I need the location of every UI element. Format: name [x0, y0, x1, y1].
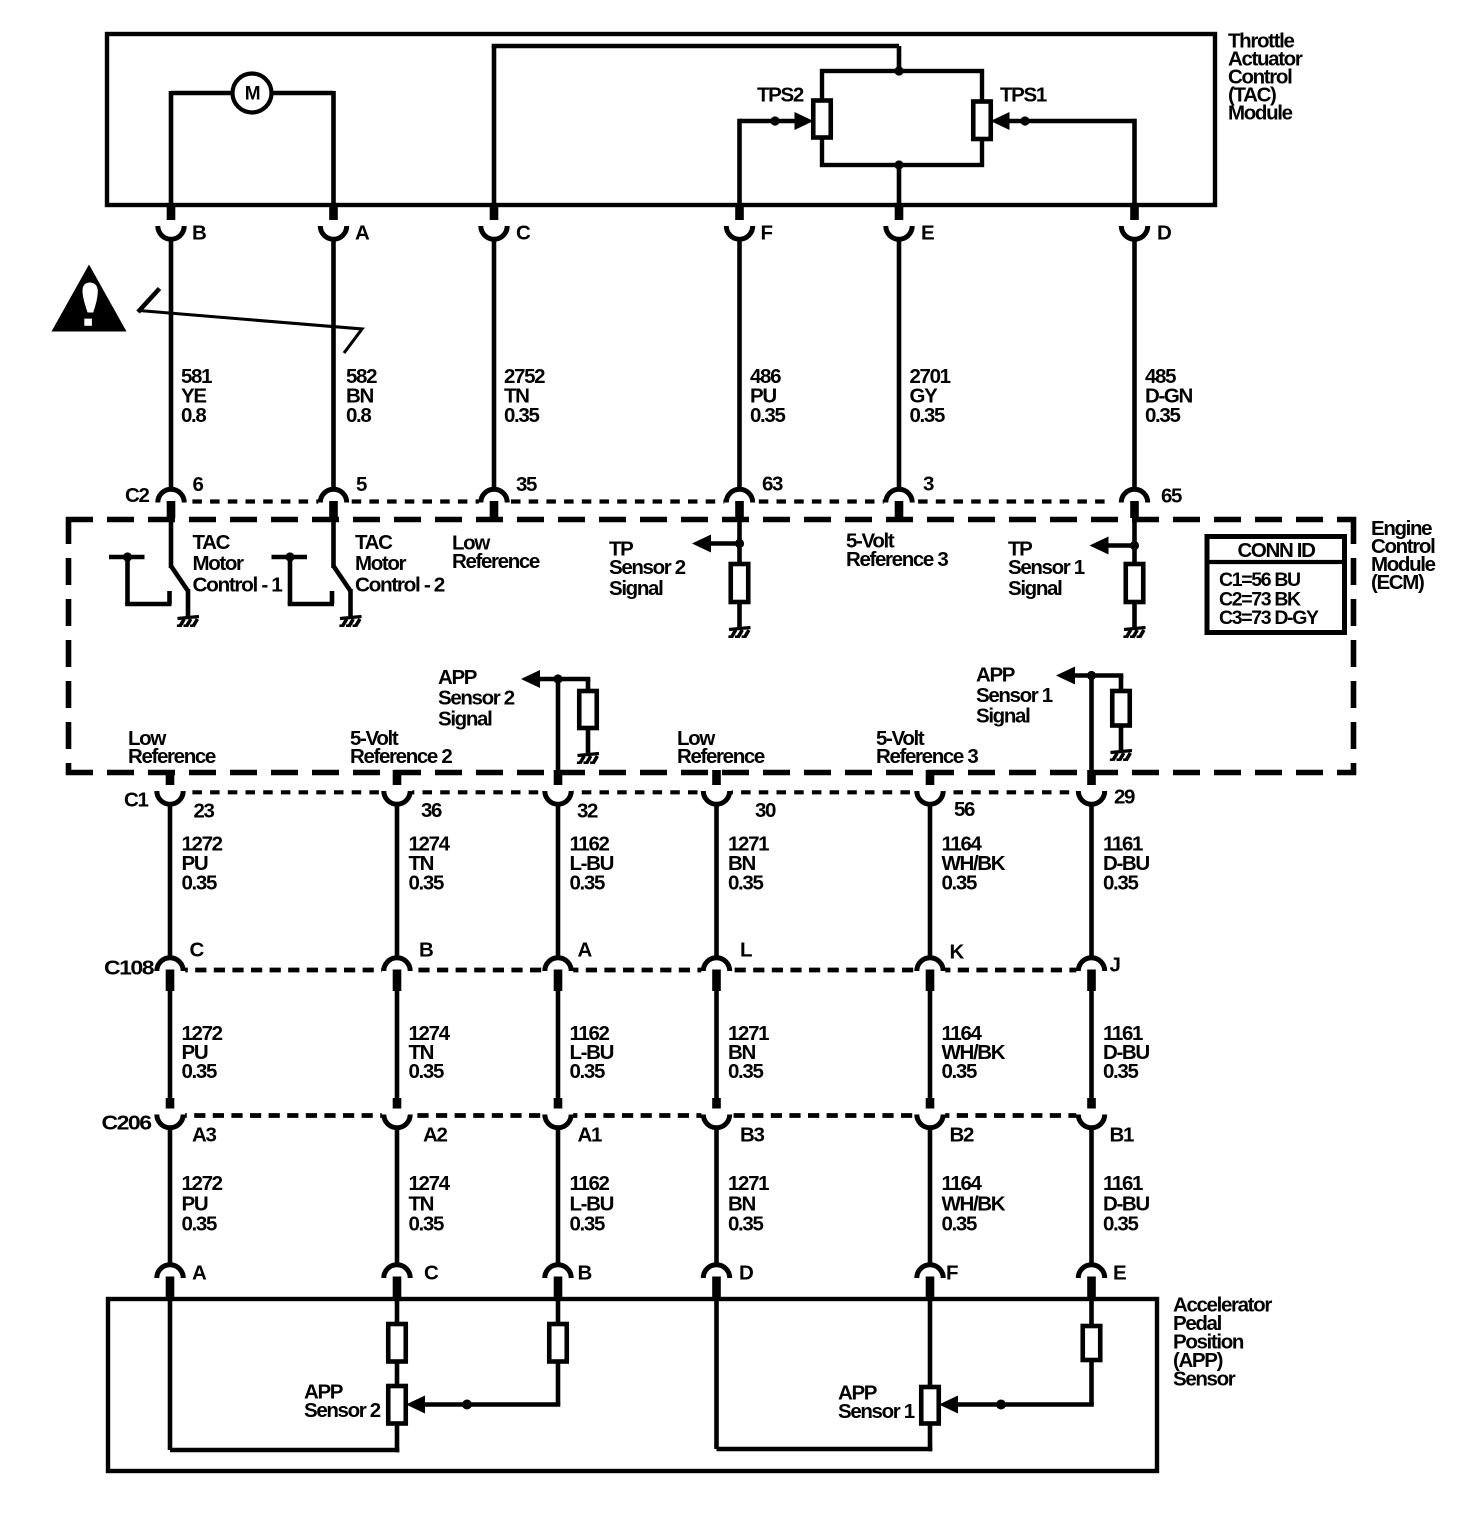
connector pin 36 (C1) [382, 770, 412, 958]
resistor APP sensor 1 wiper series [1083, 1326, 1101, 1360]
wire label 1274 TN (C108-C206) [409, 1022, 451, 1083]
wire TPS1 wiper [1008, 119, 1135, 207]
svg-text:0.8: 0.8 [346, 404, 371, 427]
svg-text:3: 3 [923, 472, 934, 495]
svg-text:Signal: Signal [1008, 577, 1062, 600]
wire TPS bottom to pin E [897, 165, 902, 207]
pin label 23 [194, 799, 215, 822]
pin label 3 [923, 472, 934, 495]
wire label 581 YE 0.8 [181, 365, 212, 427]
svg-text:D: D [1157, 221, 1171, 244]
wire label 1271 BN (C108-C206) [728, 1022, 769, 1083]
wire pin F to pot 1 [928, 1301, 933, 1387]
pin label A1 [578, 1123, 602, 1146]
connector pin B (APP sensor) [543, 1265, 573, 1299]
wire label 1162 L-BU (C206-APP) [570, 1172, 614, 1236]
wire resistor to pot 2 [395, 1362, 400, 1387]
svg-text:Sensor 2: Sensor 2 [609, 556, 686, 579]
node TPS2 wiper dot [770, 116, 779, 125]
wire APP sensor 2 signal [556, 679, 561, 772]
svg-text:TAC: TAC [355, 531, 393, 554]
svg-text:C108: C108 [104, 956, 154, 979]
svg-text:0.35: 0.35 [409, 1212, 444, 1235]
arrow TP sensor 2 signal [692, 535, 744, 553]
svg-text:0.35: 0.35 [1103, 871, 1138, 894]
pin label 35 [516, 473, 537, 496]
wire label 1271 BN (C1-C108) [728, 832, 769, 894]
arrow TP sensor 1 signal [1090, 537, 1140, 555]
node TPS bottom junction [894, 160, 903, 169]
svg-text:K: K [950, 940, 965, 963]
svg-text:B3: B3 [740, 1123, 764, 1146]
wire TP sensor 2 signal [737, 517, 742, 564]
driver TAC Motor Control - 1 (with ground) [109, 517, 199, 626]
label 5-Volt Reference 2 (pin 36) [350, 727, 452, 768]
pin label A [355, 221, 370, 244]
arrowhead APP sensor 2 wiper [406, 1396, 425, 1414]
pin label 63 [762, 472, 783, 495]
svg-text:Sensor 1: Sensor 1 [838, 1400, 915, 1423]
svg-text:B2: B2 [950, 1123, 974, 1146]
TAC module box outline [107, 34, 1215, 205]
label TP Sensor 1 Signal [1008, 537, 1085, 600]
resistor APP sensor 2 wiper series [549, 1324, 567, 1362]
svg-text:56: 56 [954, 798, 975, 821]
wire resistor to ground [1119, 726, 1124, 752]
pin label B [419, 938, 433, 961]
connector pin 56 (C1) [915, 770, 945, 958]
label TAC Motor Control - 1 [193, 531, 283, 597]
svg-text:0.35: 0.35 [182, 1212, 217, 1235]
svg-text:0.35: 0.35 [750, 404, 785, 427]
svg-text:(ECM): (ECM) [1371, 571, 1424, 594]
wire label 1272 PU (C1-C108) [182, 832, 223, 894]
svg-text:0.35: 0.35 [1103, 1212, 1138, 1235]
wire motor right to pin A [270, 91, 334, 207]
pin label A2 [423, 1123, 447, 1146]
label APP Sensor 1 Signal [976, 663, 1053, 727]
wire TP sensor 1 signal [1132, 517, 1137, 564]
svg-text:B: B [192, 221, 206, 244]
warning symbol (caution triangle) [52, 265, 127, 332]
connector pin L (C108) [701, 958, 731, 1100]
svg-text:C: C [190, 938, 205, 961]
wire label 1161 D-BU (C206-APP) [1103, 1172, 1149, 1236]
resistor TP sensor 2 pull-up [731, 564, 749, 602]
svg-text:B: B [419, 938, 433, 961]
connector pin F (APP sensor) [915, 1265, 945, 1299]
wire pin C into box [395, 1301, 400, 1324]
resistor TP sensor 1 pull-up [1126, 564, 1144, 602]
connector C108 dashed line [158, 968, 1079, 973]
svg-text:C: C [424, 1261, 439, 1284]
connector pin A (C108) [543, 958, 573, 1100]
svg-text:6: 6 [193, 473, 204, 496]
connector pin 65 (C2) [1119, 489, 1149, 518]
wire pin D to pot 1 low side [717, 1301, 933, 1449]
svg-text:29: 29 [1114, 785, 1135, 808]
wire label 1274 TN (C1-C108) [409, 832, 451, 894]
node TPS top junction [894, 66, 903, 75]
wire motor left to pin B [171, 91, 234, 207]
svg-text:B1: B1 [1110, 1123, 1134, 1146]
label Engine Control Module (ECM) [1371, 517, 1436, 594]
connector pin B3 (C206) [701, 1098, 731, 1265]
pin label 29 [1114, 785, 1135, 808]
svg-text:65: 65 [1161, 484, 1182, 507]
label 5-Volt Reference 3 (pin 56) [876, 727, 978, 768]
svg-text:0.8: 0.8 [181, 404, 206, 427]
resistor APP sensor 2 pull-up [579, 679, 597, 728]
wire label 1161 D-BU (C1-C108) [1103, 832, 1149, 894]
svg-text:A3: A3 [192, 1123, 216, 1146]
svg-text:C1: C1 [124, 788, 148, 811]
node APP sensor 2 wiper dot [462, 1400, 472, 1410]
svg-text:0.35: 0.35 [1145, 404, 1180, 427]
svg-text:32: 32 [577, 799, 598, 822]
wire label 2752 TN 0.35 [504, 365, 545, 427]
arrowhead TPS1 wiper [991, 112, 1010, 130]
svg-text:36: 36 [421, 799, 442, 822]
svg-text:0.35: 0.35 [570, 871, 605, 894]
svg-text:E: E [921, 221, 934, 244]
connector pin A2 (C206) [382, 1098, 412, 1265]
pin label 65 [1161, 484, 1182, 507]
pin label B3 [740, 1123, 764, 1146]
connector pin 32 (C1) [543, 770, 573, 958]
wire label 1162 L-BU (C1-C108) [570, 832, 614, 894]
pin label 36 [421, 799, 442, 822]
ECM module dashed border [66, 517, 1356, 775]
wire label 1162 L-BU (C108-C206) [570, 1022, 614, 1083]
wire APP sensor 1 signal [1089, 676, 1094, 773]
ground TP sensor 1 [1123, 628, 1145, 638]
svg-text:0.35: 0.35 [910, 404, 945, 427]
svg-text:C206: C206 [102, 1111, 152, 1134]
svg-text:F: F [761, 221, 773, 244]
svg-text:B: B [578, 1261, 592, 1284]
arrow APP sensor 1 signal [1056, 667, 1123, 685]
connector pin D (TAC module) [1119, 205, 1149, 490]
svg-text:35: 35 [516, 473, 537, 496]
svg-text:Module: Module [1228, 101, 1293, 124]
wire label 1271 BN (C206-APP) [728, 1172, 769, 1236]
svg-text:0.35: 0.35 [728, 1212, 763, 1235]
pin label C [190, 938, 205, 961]
svg-text:Motor: Motor [355, 552, 407, 575]
svg-text:0.35: 0.35 [570, 1060, 605, 1083]
wire resistor to ground [737, 602, 742, 628]
resistor APP sensor 2 series [388, 1324, 406, 1362]
svg-text:C2: C2 [125, 484, 149, 507]
connector pin B1 (C206) [1076, 1098, 1106, 1265]
label TAC Motor Control - 2 [355, 531, 445, 597]
APP sensor box outline [108, 1299, 1157, 1471]
svg-text:5: 5 [356, 473, 367, 496]
arrow APP sensor 2 signal [521, 670, 590, 688]
pin label D [739, 1261, 753, 1284]
resistor APP sensor 1 pull-up [1112, 676, 1130, 726]
label Throttle Actuator Control (TAC) Module [1228, 29, 1303, 124]
svg-text:Sensor 1: Sensor 1 [1008, 556, 1085, 579]
svg-text:TAC: TAC [193, 531, 231, 554]
wire pot 1 to low rail [928, 1424, 933, 1452]
wire label 1274 TN (C206-APP) [409, 1172, 451, 1236]
connector pin C (TAC module) [479, 205, 509, 490]
label TPS2 [757, 83, 804, 106]
connector pin 35 (C2) [479, 489, 509, 518]
svg-text:E: E [1113, 1261, 1126, 1284]
connector pin E (TAC module) [884, 205, 914, 490]
svg-text:J: J [1110, 953, 1120, 976]
svg-text:TPS2: TPS2 [757, 83, 804, 106]
svg-text:0.35: 0.35 [409, 871, 444, 894]
svg-text:Signal: Signal [438, 707, 492, 730]
wire label 1164 WH/BK (C206-APP) [942, 1172, 1006, 1236]
svg-text:Reference: Reference [452, 550, 540, 573]
svg-text:Signal: Signal [609, 577, 663, 600]
connector pin C (APP sensor) [382, 1265, 412, 1299]
pin label B [192, 221, 206, 244]
pin label C [424, 1261, 439, 1284]
wire label 2701 GY 0.35 [910, 365, 951, 427]
connector C206 dashed line [157, 1113, 1079, 1118]
TPS bridge rectangle [822, 71, 982, 165]
label APP Sensor 2 Signal [438, 666, 515, 731]
pin label B [578, 1261, 592, 1284]
connector pin B (TAC module) [156, 205, 186, 490]
svg-text:0.35: 0.35 [942, 1212, 977, 1235]
pin label 5 [356, 473, 367, 496]
warning leader line [138, 289, 362, 354]
svg-text:0.35: 0.35 [570, 1212, 605, 1235]
wire pin E into box [1089, 1301, 1094, 1326]
wire resistor to wiper [957, 1360, 1094, 1405]
pin label 32 [577, 799, 598, 822]
svg-text:Reference 3: Reference 3 [846, 548, 948, 571]
svg-text:0.35: 0.35 [728, 1060, 763, 1083]
resistor TPS2 [813, 101, 831, 138]
connector pin K (C108) [915, 958, 945, 1100]
label APP Sensor 2 [304, 1380, 381, 1422]
pin label F [946, 1261, 958, 1284]
connector pin F (TAC module) [724, 205, 754, 490]
label 5-Volt Reference 3 (pin 3) [846, 529, 948, 571]
pin label J [1110, 953, 1120, 976]
svg-text:CONN ID: CONN ID [1237, 539, 1315, 562]
svg-text:C3=73 D-GY: C3=73 D-GY [1219, 607, 1319, 629]
svg-text:A: A [192, 1261, 207, 1284]
svg-text:C: C [516, 221, 531, 244]
wire label 1161 D-BU (C108-C206) [1103, 1022, 1149, 1083]
pin label A3 [192, 1123, 216, 1146]
connector pin B2 (C206) [915, 1098, 945, 1265]
connector C1 label [124, 788, 148, 811]
connector C2 label [125, 484, 149, 507]
connector pin B (C108) [382, 958, 412, 1100]
ground TP sensor 2 [728, 628, 750, 638]
svg-text:TPS1: TPS1 [1000, 83, 1047, 106]
wire label 1164 WH/BK (C1-C108) [942, 832, 1006, 894]
svg-text:Control - 2: Control - 2 [355, 573, 445, 596]
arrowhead TPS2 wiper [795, 112, 814, 130]
wire pin A to pot 2 low side [170, 1301, 399, 1450]
pin label C [516, 221, 531, 244]
connector pin 23 (C1) [155, 770, 185, 958]
connector pin C (C108) [155, 958, 185, 1100]
svg-text:0.35: 0.35 [942, 871, 977, 894]
connector pin A1 (C206) [543, 1098, 573, 1265]
svg-text:0.35: 0.35 [182, 871, 217, 894]
wire resistor to ground [1132, 602, 1137, 628]
connector pin 5 (C2) [318, 489, 348, 518]
pin label E [1113, 1261, 1126, 1284]
svg-text:Sensor 2: Sensor 2 [304, 1399, 381, 1422]
pin label L [740, 938, 752, 961]
resistor TPS1 [973, 102, 991, 140]
pin label D [1157, 221, 1171, 244]
svg-text:Motor: Motor [193, 552, 245, 575]
svg-text:0.35: 0.35 [409, 1060, 444, 1083]
pin label 6 [193, 473, 204, 496]
node APP sensor 1 wiper dot [996, 1400, 1006, 1410]
connector C2 dashed line [157, 499, 1110, 503]
pin label 56 [954, 798, 975, 821]
wire pin B into box [556, 1301, 561, 1324]
svg-text:Signal: Signal [976, 704, 1030, 727]
pin label B1 [1110, 1123, 1134, 1146]
svg-text:63: 63 [762, 472, 783, 495]
svg-text:Reference: Reference [128, 745, 216, 768]
label TPS1 [1000, 83, 1047, 106]
pin label E [921, 221, 934, 244]
label Low Reference (pin 35) [452, 531, 540, 573]
connector C206 label [102, 1111, 152, 1134]
driver TAC Motor Control - 2 (with ground) [272, 517, 362, 626]
label APP Sensor 1 [838, 1381, 915, 1423]
svg-text:M: M [245, 83, 260, 104]
motor M [233, 74, 272, 113]
CONN ID table [1207, 537, 1345, 633]
node TPS1 wiper dot [1020, 116, 1029, 125]
svg-text:0.35: 0.35 [1103, 1060, 1138, 1083]
connector pin J (C108) [1076, 958, 1106, 1100]
connector pin 63 (C2) [724, 489, 754, 518]
pin label F [761, 221, 773, 244]
svg-text:Control - 1: Control - 1 [193, 573, 283, 596]
connector C1 dashed line [157, 790, 1079, 794]
svg-text:Sensor: Sensor [1173, 1367, 1236, 1390]
wire pot 2 to low rail [395, 1424, 400, 1453]
connector pin A (APP sensor) [155, 1265, 185, 1299]
svg-text:A1: A1 [578, 1123, 602, 1146]
wire label 1272 PU (C206-APP) [182, 1172, 223, 1236]
pin label A [192, 1261, 207, 1284]
svg-text:0.35: 0.35 [504, 404, 539, 427]
svg-text:Reference: Reference [677, 745, 765, 768]
wire TPS2 wiper [740, 119, 798, 207]
pin label A [578, 938, 593, 961]
connector pin 3 (C2) [884, 489, 914, 518]
wire label 486 PU 0.35 [750, 365, 785, 427]
pin label 30 [755, 799, 776, 822]
wire label 1164 WH/BK (C108-C206) [942, 1022, 1006, 1083]
connector pin E (APP sensor) [1076, 1265, 1106, 1299]
label Low Reference (pin 30) [677, 727, 765, 768]
label Low Reference (pin 23) [128, 727, 216, 768]
label TP Sensor 2 Signal [609, 537, 686, 600]
svg-text:A2: A2 [423, 1123, 447, 1146]
label Accelerator Pedal Position (APP) Sensor [1173, 1293, 1272, 1390]
connector pin 6 (C2) [156, 489, 186, 518]
connector pin 30 (C1) [701, 770, 731, 958]
potentiometer APP Sensor 2 [388, 1386, 406, 1424]
ground APP sensor 1 [1110, 751, 1132, 761]
svg-text:F: F [946, 1261, 958, 1284]
svg-text:Reference 2: Reference 2 [350, 745, 452, 768]
svg-text:0.35: 0.35 [182, 1060, 217, 1083]
wire label 1272 PU (C108-C206) [182, 1022, 223, 1083]
svg-text:0.35: 0.35 [942, 1060, 977, 1083]
wire label 485 D-GN 0.35 [1145, 365, 1193, 427]
svg-text:30: 30 [755, 799, 776, 822]
wire resistor to wiper [424, 1362, 560, 1405]
svg-text:L: L [740, 938, 752, 961]
svg-text:A: A [355, 221, 370, 244]
wire resistor to ground [586, 728, 591, 754]
connector pin A3 (C206) [155, 1098, 185, 1265]
connector C108 label [104, 956, 154, 979]
potentiometer APP Sensor 1 [921, 1387, 939, 1424]
pin label B2 [950, 1123, 974, 1146]
connector pin A (TAC module) [318, 205, 348, 490]
connector pin D (APP sensor) [701, 1265, 731, 1299]
svg-text:Sensor 2: Sensor 2 [438, 686, 515, 709]
svg-text:D: D [739, 1261, 753, 1284]
arrowhead APP sensor 1 wiper [939, 1396, 958, 1414]
wire label 582 BN 0.8 [346, 365, 377, 427]
svg-text:Reference 3: Reference 3 [876, 745, 978, 768]
svg-text:23: 23 [194, 799, 215, 822]
pin label K [950, 940, 965, 963]
svg-text:0.35: 0.35 [728, 871, 763, 894]
ground APP sensor 2 [577, 754, 599, 764]
connector pin 29 (C1) [1076, 770, 1106, 958]
svg-text:A: A [578, 938, 593, 961]
wire pin C to TPS top [492, 46, 899, 207]
